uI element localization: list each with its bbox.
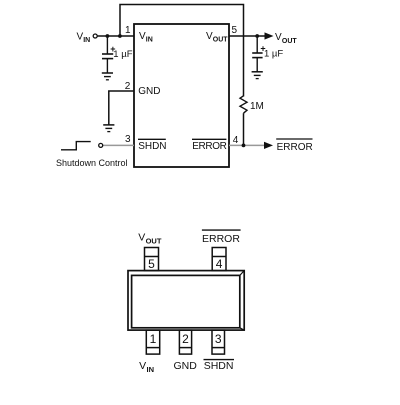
svg-text:5: 5 (232, 25, 238, 36)
svg-text:OUT: OUT (213, 37, 229, 44)
svg-text:Shutdown Control: Shutdown Control (56, 158, 128, 168)
svg-text:1 µF: 1 µF (264, 49, 283, 60)
svg-text:ERROR: ERROR (192, 141, 226, 152)
svg-text:5: 5 (148, 257, 155, 271)
svg-text:3: 3 (125, 134, 131, 145)
svg-text:GND: GND (174, 360, 198, 372)
svg-text:1: 1 (150, 332, 157, 346)
svg-text:4: 4 (233, 135, 239, 146)
svg-text:1M: 1M (250, 101, 264, 112)
svg-text:2: 2 (125, 81, 131, 92)
svg-text:1: 1 (125, 25, 131, 36)
svg-text:IN: IN (147, 365, 155, 374)
svg-text:4: 4 (216, 257, 223, 271)
svg-text:OUT: OUT (282, 38, 298, 45)
svg-text:IN: IN (83, 37, 90, 44)
svg-text:OUT: OUT (146, 236, 162, 245)
svg-text:3: 3 (215, 332, 222, 346)
svg-text:IN: IN (146, 37, 153, 44)
svg-text:2: 2 (182, 332, 189, 346)
svg-text:ERROR: ERROR (277, 142, 313, 153)
svg-text:SHDN: SHDN (138, 141, 166, 152)
svg-text:ERROR: ERROR (202, 233, 240, 245)
svg-text:V: V (139, 360, 146, 372)
svg-text:GND: GND (138, 86, 160, 97)
svg-text:1 µF: 1 µF (113, 49, 132, 60)
svg-text:V: V (138, 232, 145, 244)
svg-text:SHDN: SHDN (204, 360, 234, 372)
